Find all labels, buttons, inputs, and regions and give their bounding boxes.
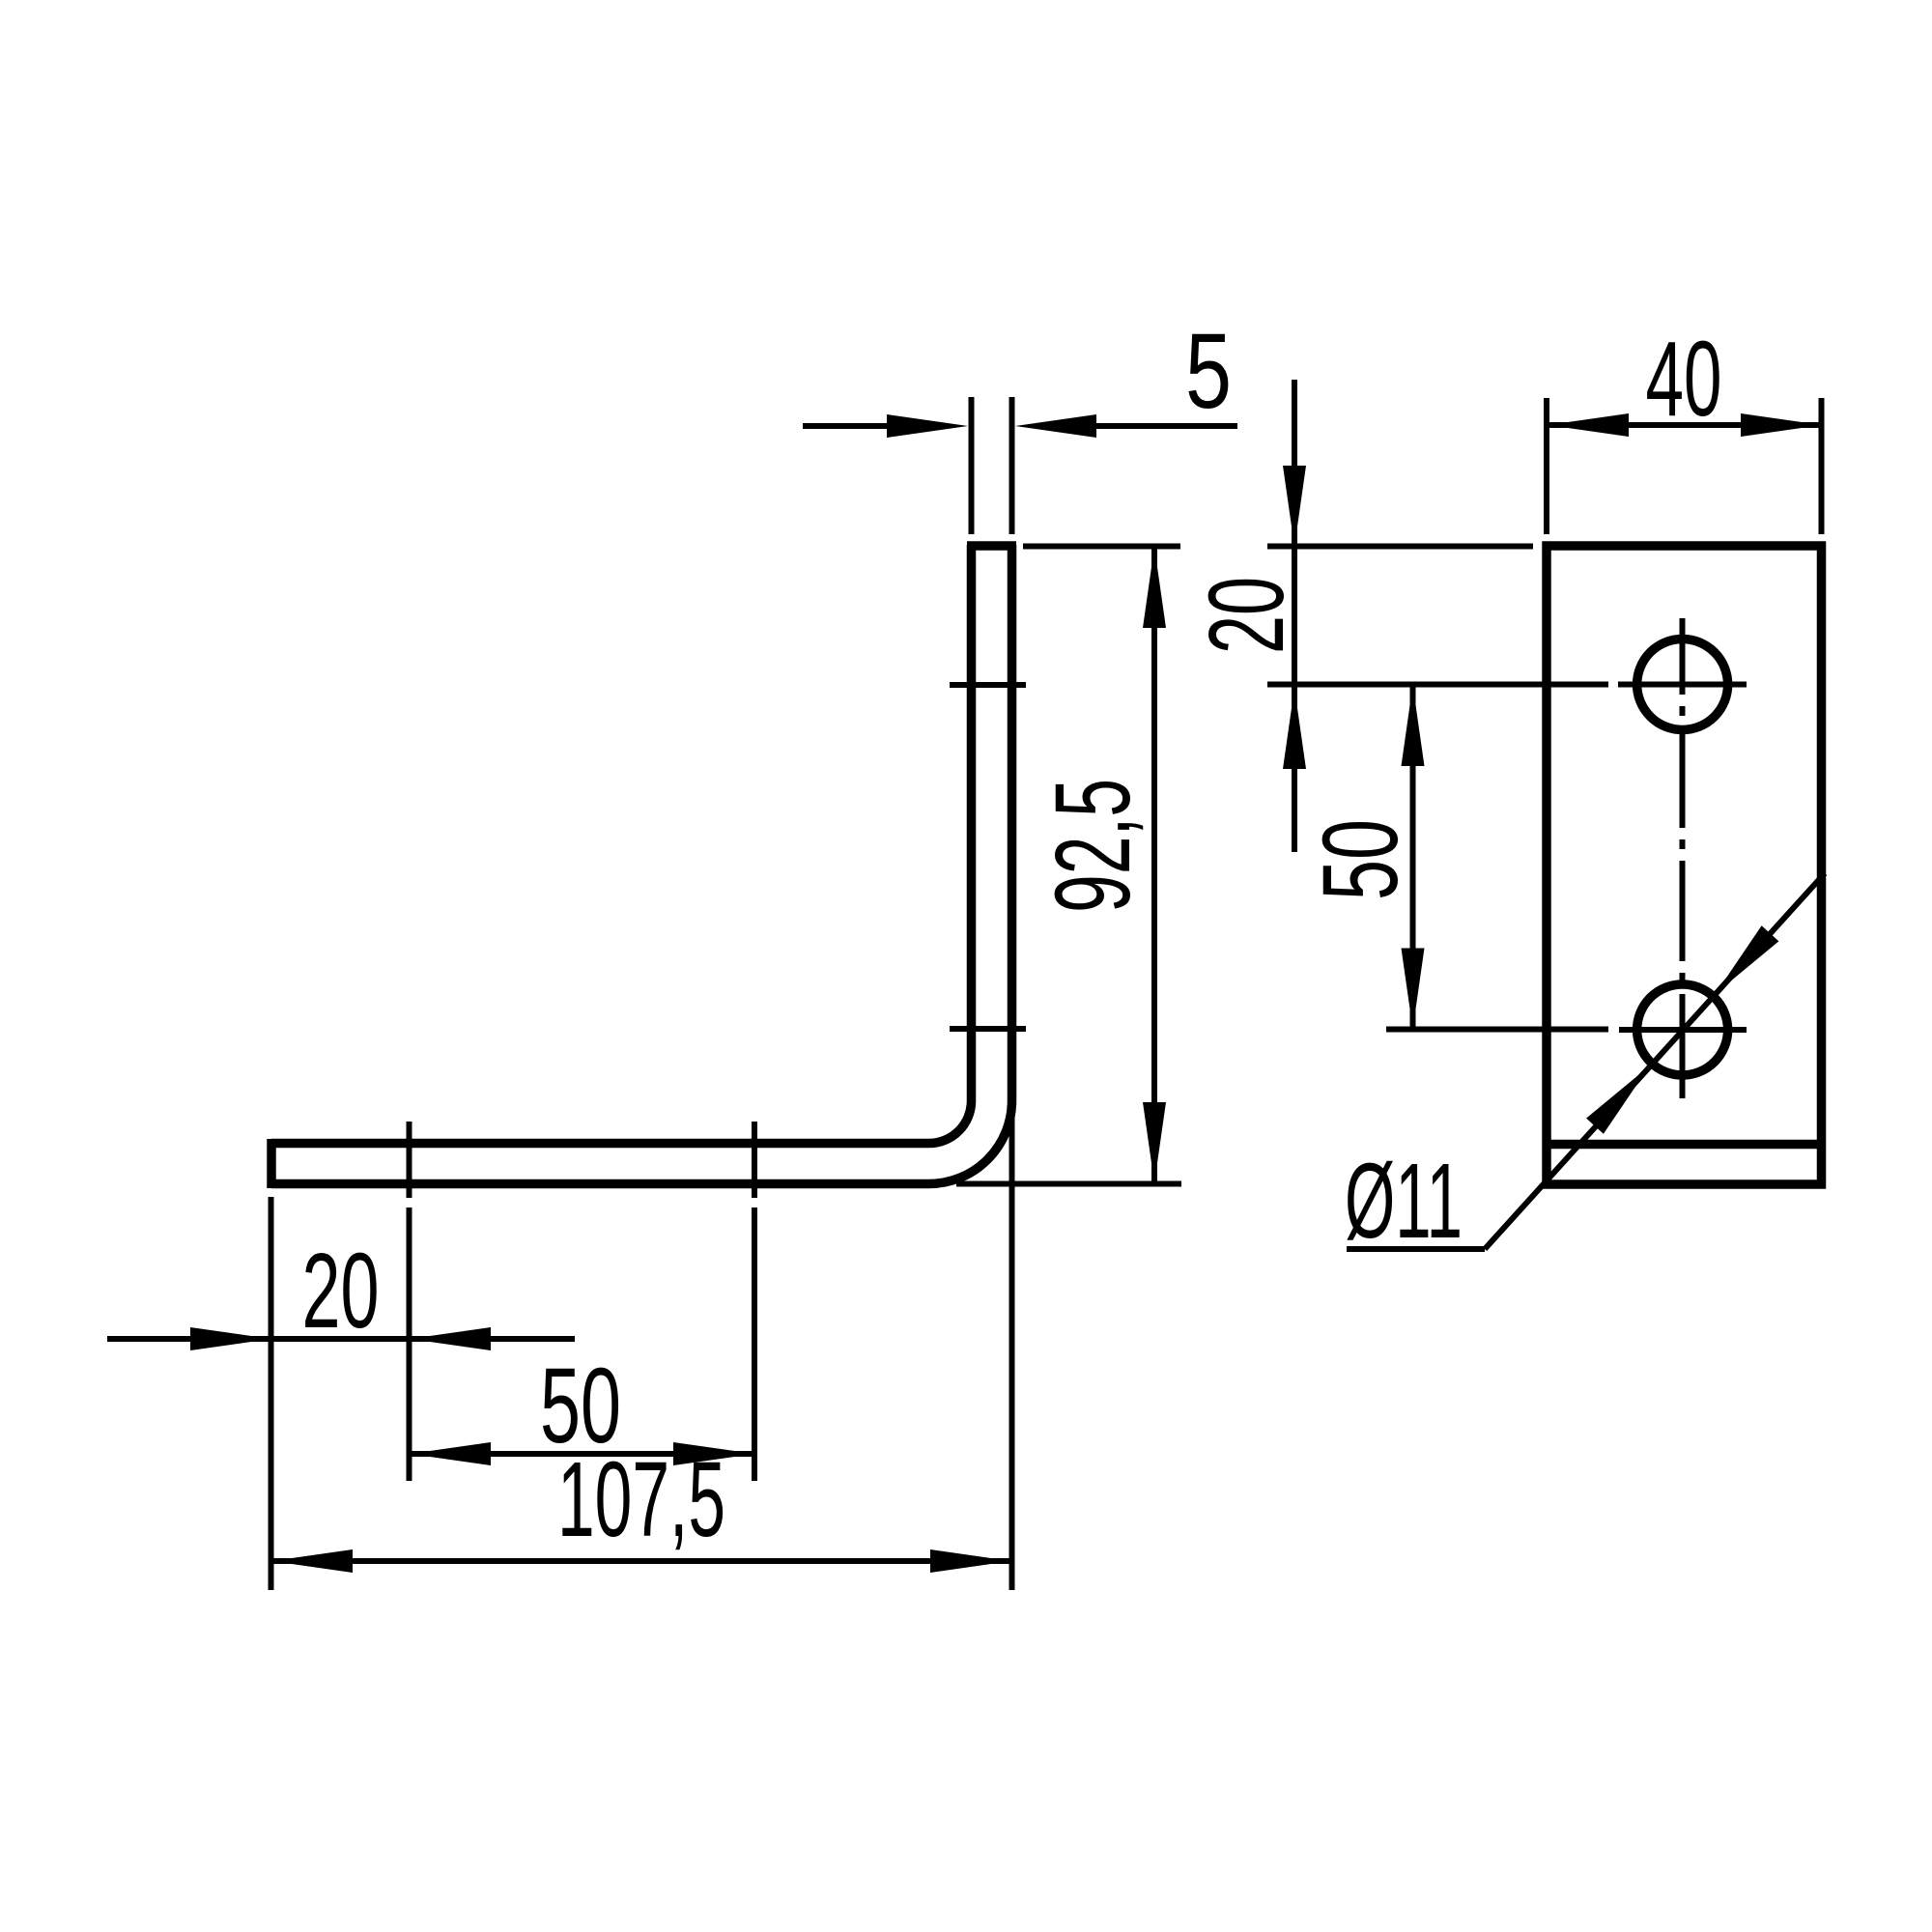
side view: L-profile left end cap bbox=[267, 1139, 276, 1188]
dimension 40: dimension line with inside arrows bbox=[1548, 413, 1822, 437]
front view: bend tangent line near bottom bbox=[1547, 1140, 1822, 1150]
dimension 5: left dimension line with arrow bbox=[803, 414, 968, 438]
svg-text:92,5: 92,5 bbox=[1034, 779, 1152, 913]
front view: vertical center line through holes (dash-dot) bbox=[1680, 618, 1686, 1098]
side view: L-profile vertical leg left outline bbox=[967, 545, 977, 1101]
svg-text:20: 20 bbox=[302, 1232, 380, 1350]
dimension 50 bottom: right extension line (upper part) bbox=[752, 1122, 757, 1198]
dimension 5: right dimension line with arrow bbox=[1015, 414, 1237, 438]
front view: hole 2 horizontal center line bbox=[1619, 1027, 1747, 1033]
dimension 20 bottom: left extension line bbox=[269, 1197, 274, 1590]
dimension 107,5: dimension line with inside arrows bbox=[271, 1549, 1012, 1573]
svg-text:107,5: 107,5 bbox=[557, 1440, 725, 1559]
dimension 5: right extension line bbox=[1009, 397, 1015, 534]
dimension 92,5: dimension line bbox=[1151, 547, 1157, 1183]
dimension 20/50 right: extension line at hole 1 level bbox=[1267, 682, 1608, 688]
dimension 50 bottom: right extension line (lower part) bbox=[752, 1207, 757, 1481]
dimension 20 bottom: dimension line with outside arrows bbox=[107, 1327, 575, 1350]
dimension 92,5: bottom extension line bbox=[956, 1181, 1181, 1187]
dimension 40: left extension line bbox=[1544, 398, 1549, 534]
dimension 92,5: top arrowhead bbox=[1143, 547, 1166, 628]
front view: plate outline bbox=[1547, 546, 1822, 1184]
front view: hole 1 circle bbox=[1637, 639, 1728, 730]
hole diameter label leader: horizontal tail bbox=[1347, 1246, 1485, 1252]
front view: hole 1 horizontal center line bbox=[1618, 682, 1747, 688]
hole diameter label leader: lower arrowhead bbox=[1586, 1066, 1649, 1134]
dimension 20/50 bottom: shared middle extension line (lower part) bbox=[407, 1207, 412, 1481]
side view: hole 2 position tick on vertical leg bbox=[950, 1026, 1026, 1032]
side view: hole 1 position tick on vertical leg bbox=[950, 682, 1026, 688]
dimension 92,5: bottom arrowhead bbox=[1143, 1102, 1166, 1183]
svg-text:40: 40 bbox=[1646, 320, 1722, 439]
svg-text:20: 20 bbox=[1187, 577, 1306, 654]
dimension 50 right: extension line at hole 2 level bbox=[1386, 1027, 1608, 1033]
dimension 50 bottom: dimension line with inside arrows bbox=[410, 1442, 754, 1465]
side view: inner bend arc r44 bbox=[929, 1101, 972, 1144]
dimension 107,5: right extension line bbox=[1009, 1101, 1015, 1590]
hole diameter label leader: diagonal line bbox=[1485, 873, 1825, 1249]
dimension 40: right extension line bbox=[1819, 398, 1825, 534]
svg-text:5: 5 bbox=[1185, 312, 1232, 431]
side view: L-profile horizontal leg bottom outline bbox=[271, 1179, 929, 1189]
dimension 20 right: dimension line with outside arrows bbox=[1283, 380, 1306, 852]
dimension 20 right: extension line from plate top bbox=[1267, 544, 1533, 550]
svg-text:50: 50 bbox=[1301, 819, 1420, 900]
dimension 5: left extension line bbox=[969, 397, 975, 534]
side view: L-profile vertical leg right outline bbox=[1008, 545, 1017, 1101]
dimension 92,5: top extension line bbox=[1023, 544, 1180, 550]
svg-text:Ø11: Ø11 bbox=[1345, 1142, 1463, 1261]
side view: L-profile horizontal leg top outline bbox=[271, 1139, 929, 1149]
front view: hole 2 circle bbox=[1637, 984, 1728, 1075]
hole diameter label leader: upper arrowhead bbox=[1716, 925, 1778, 993]
dimension 50 right: dimension line with inside arrows bbox=[1402, 685, 1425, 1030]
side view: outer bend arc r86 bbox=[929, 1101, 1012, 1184]
side view: L-profile top end cap bbox=[967, 541, 1016, 551]
dimension 20/50 bottom: shared middle extension line (upper part) bbox=[407, 1122, 412, 1198]
